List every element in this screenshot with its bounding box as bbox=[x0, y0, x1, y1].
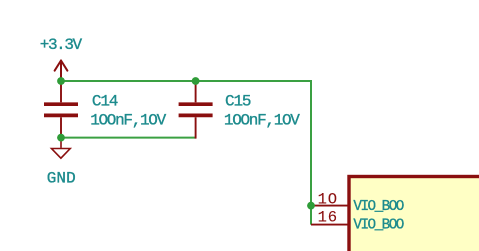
svg-text:16: 16 bbox=[318, 209, 338, 227]
svg-text:C14: C14 bbox=[92, 93, 119, 111]
svg-text:1O: 1O bbox=[318, 191, 338, 209]
svg-text:1OOnF,1OV: 1OOnF,1OV bbox=[224, 112, 300, 130]
svg-text:VIO_BOO: VIO_BOO bbox=[353, 199, 404, 215]
svg-text:GND: GND bbox=[47, 169, 76, 187]
svg-text:1OOnF,1OV: 1OOnF,1OV bbox=[90, 112, 166, 130]
svg-text:+3.3V: +3.3V bbox=[40, 36, 83, 54]
svg-text:VIO_BOO: VIO_BOO bbox=[353, 218, 404, 234]
svg-text:C15: C15 bbox=[225, 93, 252, 111]
